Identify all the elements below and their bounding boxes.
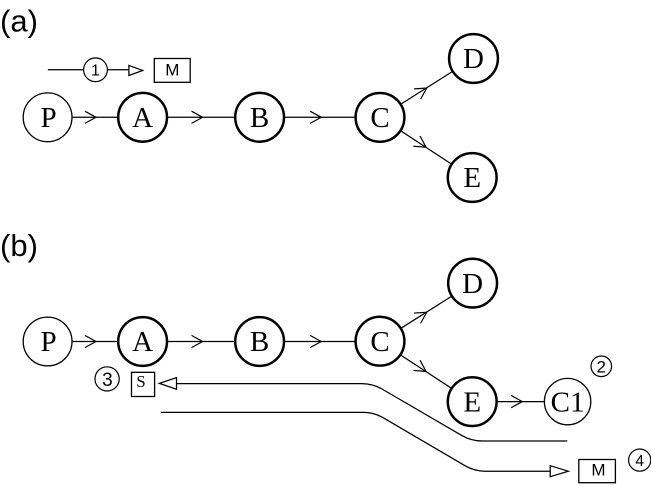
edge E-C1 (b) [494,401,546,403]
svg-text:E: E [463,162,481,194]
node P (b) [23,317,72,366]
wire: annotation line to M (a) [48,69,129,71]
marker circle 2 [591,356,612,377]
node C1 (b) [544,378,590,424]
arrowhead P-A (a) [85,111,96,123]
svg-text:P: P [41,102,57,134]
edge B-C (b) [282,341,358,343]
svg-text:(a): (a) [0,4,38,39]
svg-text:D: D [462,268,483,300]
arrowhead C-D (a) [414,83,430,99]
node P (a) [23,93,72,142]
node A (a) [118,93,167,142]
wire: upper return curve (C1 side to S) [177,384,568,441]
edge P-A (b) [70,341,120,343]
node C (a) [356,93,405,142]
arrowhead A-B (a) [192,111,203,123]
arrowhead B-C (a) [310,111,321,123]
box M (a) [154,59,190,83]
edge C-D (b) [399,294,456,330]
svg-text:B: B [250,102,269,134]
edge C-E (a) [399,129,454,165]
marker circle 4 [629,449,651,471]
node D (b) [448,259,497,308]
node E (a) [448,153,497,202]
svg-text:D: D [463,43,484,75]
svg-text:A: A [132,326,153,358]
svg-text:3: 3 [102,370,113,391]
arrowhead C-E (b) [413,360,429,376]
edge A-B (b) [165,341,237,343]
edge C-D (a) [399,70,456,106]
box S [132,372,155,396]
svg-text:1: 1 [91,63,100,80]
marker circle 3 [95,367,119,391]
svg-text:C1: C1 [551,386,585,418]
arrowhead A-B (b) [192,335,203,347]
node E (b) [448,377,497,426]
svg-text:(b): (b) [0,228,38,263]
svg-text:C: C [370,102,389,134]
arrowhead triangle into M (a) [129,65,143,75]
svg-text:A: A [132,102,153,134]
node B (b) [235,317,284,366]
svg-text:P: P [41,326,57,358]
arrowhead P-A (b) [85,335,96,347]
svg-text:M: M [165,60,179,79]
svg-text:S: S [136,372,145,391]
edge B-C (a) [282,116,358,118]
wire: lower curve (to M) [161,412,550,471]
svg-text:E: E [463,386,481,418]
arrowhead triangle into M (b) [550,466,568,477]
arrowhead B-C (b) [310,335,321,347]
edge A-B (a) [165,116,237,118]
arrowhead C-D (b) [414,307,430,323]
svg-text:B: B [250,326,269,358]
arrowhead triangle into S [159,378,176,390]
node A (b) [118,317,167,366]
svg-text:C: C [370,326,389,358]
arrowhead E-C1 (b) [511,396,522,408]
edge P-A (a) [70,116,120,118]
edge C-E (b) [399,354,454,390]
node D (a) [449,34,498,83]
box M (b) [579,460,616,483]
arrowhead C-E (a) [413,136,429,152]
svg-text:M: M [591,460,605,479]
node B (a) [235,93,284,142]
node C (b) [356,317,405,366]
svg-text:2: 2 [596,357,605,376]
svg-text:4: 4 [635,453,644,470]
marker circle 1 [84,58,108,82]
